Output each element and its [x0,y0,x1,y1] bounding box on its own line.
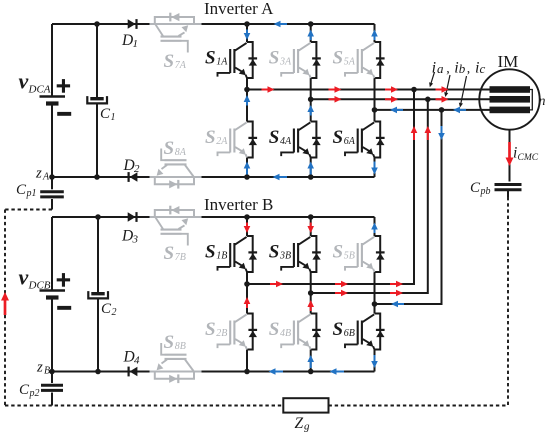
label S3B [269,242,291,263]
label S2B [205,319,227,340]
label IM [498,52,519,71]
svg-text:8B: 8B [175,341,186,352]
label Cp2 [19,382,40,399]
svg-text:S: S [164,243,175,264]
wire: inverter B phase a to bus [247,90,414,285]
current arrow leg3A bottom [371,162,378,175]
label D2 [123,157,141,175]
svg-text:2A: 2A [216,136,228,147]
svg-text:,: , [446,62,450,77]
IGBT S4B with freewheeling diode [281,314,321,350]
IGBT S1B with freewheeling diode [218,236,258,272]
IGBT S2A with freewheeling diode [218,122,258,158]
impedance Zg [283,398,328,412]
svg-text:S: S [205,48,216,69]
label S1A [205,48,228,69]
svg-text:S: S [205,319,216,340]
svg-text:D: D [121,32,133,49]
svg-text:z: z [35,166,42,182]
svg-text:2B: 2B [216,328,227,339]
wire: inverter B phase c to bus [375,110,442,304]
current arrow leg2A top [307,30,314,41]
wire: phase line b [311,98,490,100]
svg-text:2: 2 [134,163,140,175]
current arrow phase c [390,107,403,114]
current arrow leg1A mid [244,95,251,106]
label S5B [333,242,355,263]
label D3 [121,228,139,246]
junction top rail A x=310.7 [308,21,314,27]
IGBT S6B with freewheeling diode [345,314,385,350]
svg-text:D: D [123,157,135,174]
current arrow bottom rail B 2 [330,368,345,375]
junction bottom rail A x=247 [244,174,250,180]
wire: inverter A leg x=310.7 [310,24,312,177]
svg-text:7A: 7A [175,60,187,71]
current arrow leg2B mid [307,300,314,311]
wire: battery A riser [51,24,53,97]
current arrow phase b [329,96,342,103]
current arrow leg2A mid [307,105,314,116]
svg-text:CMC: CMC [518,153,539,163]
current arrow bottom rail A [273,174,288,181]
wire: battery A to node zA [51,104,53,178]
wire: dashed ground bottom left [5,405,283,407]
wire: inverter A top DC rail [52,23,375,25]
capacitor C1 [87,96,107,103]
label iCMC [513,145,539,164]
svg-text:1: 1 [111,112,116,123]
wire: inverter B leg x=247 [246,217,248,372]
junction leg-mid 374.5 [372,107,378,113]
IGBT S5A with freewheeling diode [345,42,385,78]
label Zg [295,415,311,433]
label D1 [121,32,138,50]
svg-text:S: S [269,127,280,148]
svg-text:p1: p1 [26,188,37,199]
label vDCA [19,69,51,96]
junction bottom rail B x=247 [244,369,250,375]
svg-text:Inverter B: Inverter B [204,195,273,214]
svg-text:8A: 8A [175,147,187,158]
battery VDCB [40,273,72,310]
IGBT S5B with freewheeling diode [345,236,385,272]
wire: battery B to node zB [51,298,53,372]
current arrow B line3 [391,301,404,308]
current arrow leg3B bottom [371,355,378,368]
diode D1 [128,19,138,29]
svg-text:S: S [205,127,216,148]
current arrow B line2 [390,290,403,297]
label S3A [269,48,292,69]
capacitor Cp1 lead [51,177,53,210]
wire: inverter B leg x=374.5 [374,217,376,372]
svg-text:v: v [19,69,29,94]
capacitor Cp2 lead [51,372,53,406]
current arrow drop c [438,126,445,140]
svg-text:n: n [539,94,546,109]
current arrow leg3B top [371,223,378,234]
diode D4 [128,367,138,377]
diode D2 [128,172,138,182]
junction phase c tap [439,107,445,113]
label S7B [164,243,186,264]
svg-text:C: C [470,180,481,196]
svg-text:S: S [333,48,344,69]
wire: battery B riser [51,217,53,291]
current arrow drop a [411,126,418,140]
svg-text:S: S [164,138,175,159]
IGBT S1A with freewheeling diode [218,42,258,78]
capacitor Cp1 [40,192,64,197]
IGBT S3A with freewheeling diode [281,42,321,78]
current arrow ground left [1,292,9,315]
svg-text:2: 2 [112,307,117,318]
svg-text:1B: 1B [216,251,227,262]
svg-text:c: c [480,61,486,76]
capacitor C2 [88,291,108,298]
junction B leg-mid 310.7 [308,290,314,296]
current arrow leg1A top [244,30,251,41]
svg-text:DCA: DCA [28,84,51,96]
svg-text:B: B [44,366,50,377]
current arrow iCMC [506,142,514,166]
svg-text:D: D [123,349,135,366]
current arrow leg2B top [307,223,314,234]
junction top rail B x=310.7 [308,214,314,220]
wire: inverter A bottom DC rail [52,176,375,178]
svg-text:S: S [333,319,344,340]
wire: inverter A leg x=374.5 [374,24,376,177]
label S4B [269,319,291,340]
svg-text:5B: 5B [344,251,355,262]
leader arrow to phase a [429,72,434,87]
wire: inverter B bottom DC rail [52,371,375,373]
svg-text:S: S [164,51,175,72]
wire: motor frame stem [509,130,511,182]
svg-text:6B: 6B [344,328,355,339]
label S6B [333,319,355,340]
series IGBT S8A with antiparallel diode [150,149,202,189]
svg-text:DCB: DCB [28,280,51,292]
svg-text:b: b [459,61,466,76]
capacitor Cpb [495,185,522,190]
labels ia ib ic [432,60,486,77]
svg-text:S: S [164,332,175,353]
svg-text:D: D [121,228,133,245]
leader arrow to phase c [459,76,467,108]
label vDCB [19,265,51,292]
svg-text:S: S [205,242,216,263]
svg-text:S: S [269,319,280,340]
diode D3 [128,212,138,222]
junction top rail B x=247 [244,214,250,220]
svg-text:5A: 5A [344,57,356,68]
label S7A [164,51,187,72]
current arrow B line1 [335,281,348,288]
svg-text:C: C [101,301,112,317]
battery VDCA [40,79,72,116]
leader arrow to phase b [444,75,450,97]
wire: dashed ground return right [507,190,509,406]
svg-text:S: S [333,127,344,148]
title Inverter A [204,0,274,18]
wire: inverter A leg x=247 [246,24,248,177]
svg-text:C: C [16,182,27,198]
label S8B [164,332,186,353]
junction C2 bottom [95,369,101,375]
label Cp1 [16,182,37,199]
svg-text:a: a [437,61,444,76]
svg-text:4A: 4A [280,136,292,147]
wire: inverter B top DC rail [52,216,375,218]
current arrow leg1A bottom [244,162,251,175]
junction top rail A x=247 [244,21,250,27]
junction C2 top [95,214,101,220]
svg-text:pb: pb [480,186,491,197]
IGBT S2B with freewheeling diode [218,314,258,350]
svg-text:6A: 6A [344,136,356,147]
svg-text:1: 1 [133,38,139,50]
current arrow phase b [385,96,398,103]
junction bottom rail B x=310.7 [308,369,314,375]
wire: inverter B leg x=310.7 [310,217,312,372]
svg-text:C: C [19,382,30,398]
capacitor Cp2 [41,385,63,390]
current arrow top rail A [274,21,288,28]
junction phase b tap [425,97,431,103]
svg-text:S: S [269,242,280,263]
svg-text:Inverter A: Inverter A [204,0,274,18]
series IGBT S7B with antiparallel diode [150,206,202,246]
IGBT S3B with freewheeling diode [281,236,321,272]
junction phase a tap [411,87,417,93]
junction C1 top [94,21,100,27]
label n (neutral) [539,94,546,109]
series IGBT S8B with antiparallel diode [150,343,202,383]
wire: phase line c [375,109,491,111]
label D4 [123,349,141,367]
svg-text:4: 4 [134,355,140,367]
current arrow B line1 [390,281,403,288]
label C2 [101,301,117,318]
svg-text:7B: 7B [175,252,186,263]
wire: phase line a [247,89,490,91]
label S1B [205,242,227,263]
junction B leg-mid 247 [244,281,250,287]
svg-text:p2: p2 [29,388,40,399]
svg-text:Z: Z [295,415,304,432]
current arrow phase a [329,86,342,93]
wire: capacitor C2 branch [97,217,99,372]
current arrow leg3A top [371,30,378,41]
current arrow leg1B mid [244,297,251,308]
current arrow bottom rail B [269,368,284,375]
label S8A [164,138,187,159]
label C1 [100,106,116,123]
current arrow drop b [425,126,432,140]
IGBT S4A with freewheeling diode [281,122,321,158]
svg-text:z: z [36,360,43,376]
svg-text:S: S [333,242,344,263]
wire: dashed ground left side [4,210,6,406]
svg-text:3: 3 [132,234,139,246]
title Inverter B [204,195,273,214]
label Cpb [470,180,491,197]
IGBT S6A with freewheeling diode [345,122,385,158]
current arrow B line2 [335,290,348,297]
label S2A [205,127,228,148]
svg-text:A: A [42,172,50,183]
svg-text:S: S [269,48,280,69]
node zB [36,360,55,377]
junction bottom rail A x=310.7 [308,174,314,180]
series IGBT S7A with antiparallel diode [150,13,202,53]
junction leg-mid 310.7 [308,97,314,103]
current arrow phase a [436,86,449,93]
junction C1 bottom [94,174,100,180]
current arrow B line1 [270,281,283,288]
current arrow phase a [262,86,275,93]
current arrow phase c [453,107,466,114]
induction motor IM [479,69,539,129]
wire: dashed ground under Cp1 [5,209,52,211]
svg-text:g: g [304,421,310,433]
current arrow phase a [385,86,398,93]
junction leg-mid 247 [244,87,250,93]
label S6A [333,127,356,148]
svg-text:,: , [467,62,471,77]
svg-text:1A: 1A [216,57,228,68]
current arrow leg1B top [244,223,251,234]
junction B leg-mid 374.5 [372,301,378,307]
current arrow phase b [436,96,449,103]
svg-text:3A: 3A [279,57,292,68]
svg-text:4B: 4B [280,328,291,339]
label S5A [333,48,356,69]
current arrow leg2B bottom [307,355,314,368]
svg-text:v: v [19,265,29,290]
wire: capacitor C1 branch [96,24,98,177]
label S4A [269,127,292,148]
svg-text:3B: 3B [279,251,291,262]
wire: inverter B phase b to bus [311,99,428,293]
wire: dashed ground bottom right [329,405,509,407]
node zA [35,166,55,183]
current arrow leg2A bottom [307,162,314,175]
svg-text:C: C [100,106,111,122]
svg-text:IM: IM [498,52,519,71]
